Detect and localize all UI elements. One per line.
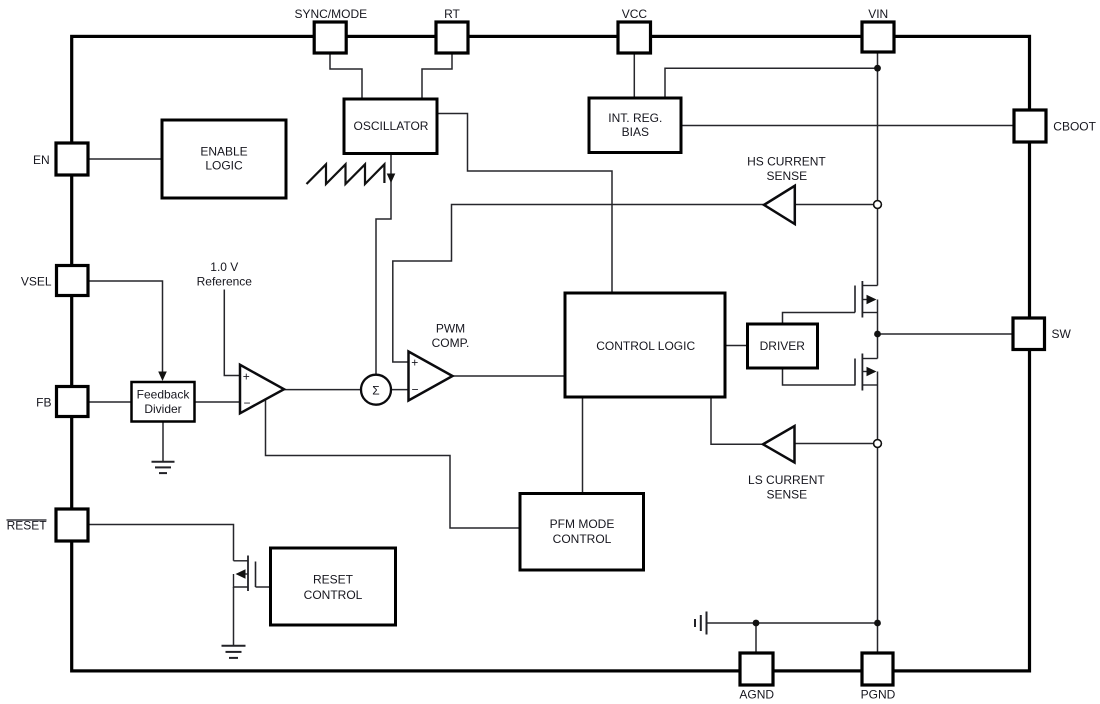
wire LS current sense output to CONTROL LOGIC bbox=[711, 398, 763, 444]
pin CBOOT bbox=[1014, 110, 1046, 142]
wire AGND branch bbox=[755, 623, 757, 653]
ground below reset FET bbox=[222, 646, 246, 658]
svg-text:SYNC/MODE: SYNC/MODE bbox=[294, 7, 367, 21]
wire error amp tap to PFM mode control bbox=[266, 399, 521, 528]
block ENABLE LOGIC bbox=[162, 120, 286, 198]
svg-text:−: − bbox=[243, 396, 250, 410]
svg-text:HS CURRENT: HS CURRENT bbox=[747, 154, 826, 168]
transistor LS power FET bbox=[855, 354, 878, 391]
block PFM MODE CONTROL bbox=[520, 494, 644, 571]
wire VIN rail down to HS FET drain bbox=[877, 52, 879, 286]
pin VIN bbox=[862, 22, 894, 52]
wire FB to feedback divider bbox=[88, 401, 132, 403]
svg-text:INT. REG.: INT. REG. bbox=[608, 111, 662, 125]
junction node below VIN bbox=[874, 65, 881, 72]
svg-text:FB: FB bbox=[36, 396, 51, 410]
svg-text:SENSE: SENSE bbox=[766, 487, 807, 501]
wire DRIVER to HS FET gate bbox=[783, 313, 856, 325]
wire 1.0V reference to error amp bbox=[224, 290, 240, 376]
junction node SW bbox=[874, 331, 881, 338]
junction node AGND bbox=[753, 620, 760, 627]
wire HS current sense output to PWM comparator bbox=[393, 205, 764, 363]
svg-text:Σ: Σ bbox=[372, 384, 379, 398]
amplifier LS current sense bbox=[763, 426, 795, 463]
wire CONTROL LOGIC to PFM mode control bbox=[582, 398, 584, 493]
wire reset FET gate to RESET CONTROL bbox=[256, 586, 271, 588]
block DRIVER bbox=[748, 324, 818, 368]
pin AGND bbox=[740, 653, 773, 685]
wire feedback divider to ground bbox=[162, 421, 164, 461]
wire VCC to INT REG BIAS bbox=[633, 53, 635, 98]
sawtooth waveform symbol bbox=[307, 164, 385, 184]
svg-text:EN: EN bbox=[33, 153, 50, 167]
svg-text:OSCILLATOR: OSCILLATOR bbox=[354, 119, 429, 133]
amplifier HS current sense bbox=[764, 186, 795, 224]
arrowhead on oscillator output bbox=[387, 174, 396, 184]
pin RT bbox=[436, 22, 468, 53]
svg-text:PWM: PWM bbox=[436, 322, 465, 336]
wire CONTROL LOGIC to DRIVER bbox=[726, 345, 748, 347]
svg-text:RESET: RESET bbox=[313, 573, 354, 587]
op-amp error amplifier bbox=[240, 365, 284, 414]
svg-text:PFM MODE: PFM MODE bbox=[550, 517, 615, 531]
svg-text:CONTROL: CONTROL bbox=[304, 588, 363, 602]
pin SYNC/MODE bbox=[314, 22, 346, 53]
svg-text:AGND: AGND bbox=[739, 688, 774, 702]
pin PGND bbox=[862, 653, 893, 685]
svg-text:1.0 V: 1.0 V bbox=[210, 260, 238, 274]
wire RESET pin to reset FET drain bbox=[88, 525, 234, 561]
svg-text:+: + bbox=[243, 369, 250, 383]
wire error amp to summing node bbox=[284, 389, 361, 391]
wire SW node to SW pin bbox=[878, 333, 1014, 335]
svg-text:VCC: VCC bbox=[622, 7, 648, 21]
wire LS current sense input bbox=[795, 443, 874, 445]
pin VSEL bbox=[57, 266, 89, 296]
block Feedback Divider bbox=[132, 382, 195, 422]
wire RT to OSCILLATOR bbox=[422, 53, 452, 99]
node LS kelvin sense bbox=[874, 440, 882, 448]
svg-text:CONTROL LOGIC: CONTROL LOGIC bbox=[596, 339, 695, 353]
svg-text:Feedback: Feedback bbox=[137, 388, 191, 402]
wire reset FET source to ground bbox=[233, 587, 235, 646]
wire VIN junction to INT REG BIAS bbox=[665, 68, 878, 98]
ground chassis symbol near AGND bbox=[695, 612, 707, 635]
svg-text:LOGIC: LOGIC bbox=[205, 159, 243, 173]
wire OSCILLATOR to summing node bbox=[376, 154, 391, 376]
transistor HS power FET bbox=[855, 281, 878, 318]
svg-text:DRIVER: DRIVER bbox=[760, 339, 806, 353]
svg-text:LS CURRENT: LS CURRENT bbox=[748, 473, 825, 487]
svg-text:SW: SW bbox=[1052, 327, 1072, 341]
svg-text:Divider: Divider bbox=[144, 402, 181, 416]
wire DRIVER to LS FET gate bbox=[783, 368, 856, 385]
svg-text:PGND: PGND bbox=[861, 688, 896, 702]
svg-text:Reference: Reference bbox=[197, 274, 253, 288]
wire SYNC/MODE to OSCILLATOR bbox=[330, 53, 362, 99]
wire LS FET source to PGND bbox=[877, 372, 879, 654]
pin VCC bbox=[618, 22, 651, 53]
ground below feedback divider bbox=[152, 462, 175, 473]
outer IC boundary bbox=[72, 36, 1030, 671]
wire VSEL to feedback divider bbox=[88, 281, 163, 379]
pin FB bbox=[57, 387, 89, 417]
block OSCILLATOR bbox=[344, 99, 437, 154]
svg-text:SENSE: SENSE bbox=[766, 169, 807, 183]
svg-text:−: − bbox=[411, 382, 418, 396]
wire EN pin to ENABLE LOGIC bbox=[88, 158, 162, 160]
svg-text:RT: RT bbox=[444, 7, 460, 21]
wire HS FET source to LS FET drain through SW node bbox=[877, 300, 879, 359]
svg-text:CONTROL: CONTROL bbox=[553, 532, 612, 546]
summing node sigma bbox=[361, 375, 391, 405]
pin SW bbox=[1013, 318, 1045, 350]
wire PWM comparator to CONTROL LOGIC bbox=[453, 375, 566, 377]
node HS kelvin sense bbox=[874, 201, 882, 209]
pin EN bbox=[56, 143, 88, 175]
comparator PWM COMP bbox=[409, 352, 453, 401]
wire INT REG BIAS to CBOOT bbox=[681, 125, 1014, 127]
svg-text:COMP.: COMP. bbox=[432, 336, 470, 350]
block RESET CONTROL bbox=[271, 548, 396, 625]
svg-text:CBOOT: CBOOT bbox=[1053, 120, 1096, 134]
block CONTROL LOGIC bbox=[565, 293, 725, 397]
wire OSCILLATOR to CONTROL LOGIC bbox=[437, 114, 612, 294]
svg-text:+: + bbox=[411, 355, 418, 369]
wire HS current sense input bbox=[795, 204, 874, 206]
svg-text:BIAS: BIAS bbox=[622, 125, 649, 139]
arrowhead on VSEL wire into feedback divider bbox=[158, 372, 167, 382]
wire chassis ground to PGND rail bbox=[707, 622, 878, 624]
svg-text:ENABLE: ENABLE bbox=[200, 144, 247, 158]
wire summing node to PWM comparator bbox=[391, 389, 409, 391]
transistor reset FET bbox=[234, 556, 256, 592]
svg-text:VSEL: VSEL bbox=[21, 274, 52, 288]
pin RESET (active low) bbox=[56, 509, 88, 541]
svg-text:VIN: VIN bbox=[868, 7, 888, 21]
block INT. REG. BIAS bbox=[589, 98, 681, 153]
junction node PGND bbox=[874, 620, 881, 627]
wire feedback divider to error amp bbox=[195, 401, 241, 403]
